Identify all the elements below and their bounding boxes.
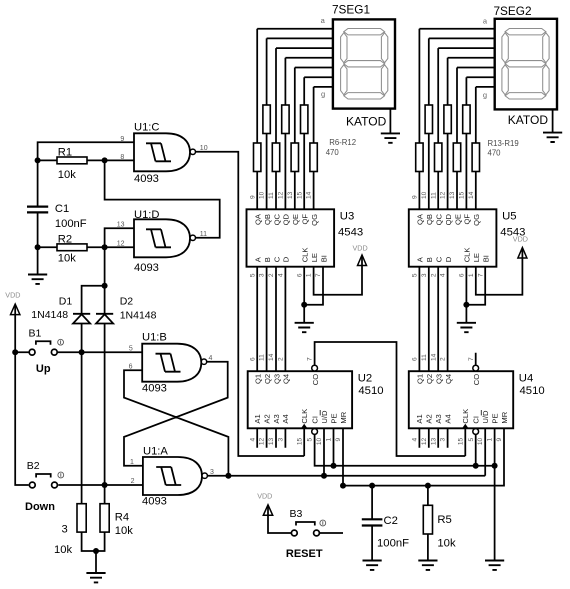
svg-text:U3: U3 <box>340 211 354 223</box>
svg-text:R5: R5 <box>437 514 451 526</box>
svg-text:CO: CO <box>472 374 481 385</box>
svg-text:QB: QB <box>425 214 434 225</box>
svg-text:9: 9 <box>120 136 124 143</box>
svg-text:PE: PE <box>490 413 499 423</box>
svg-text:4543: 4543 <box>338 227 363 239</box>
svg-text:CI: CI <box>310 416 319 424</box>
svg-text:11: 11 <box>200 231 207 238</box>
svg-text:6: 6 <box>296 273 303 277</box>
svg-text:U1:D: U1:D <box>134 209 160 221</box>
svg-text:BI: BI <box>482 255 491 262</box>
svg-text:D: D <box>444 256 453 262</box>
svg-text:100nF: 100nF <box>55 218 87 230</box>
svg-text:11: 11 <box>259 354 266 361</box>
svg-text:14: 14 <box>468 191 475 199</box>
svg-text:12: 12 <box>440 191 447 199</box>
svg-text:6: 6 <box>249 357 256 361</box>
svg-text:B: B <box>425 257 434 262</box>
svg-text:QE: QE <box>291 214 300 225</box>
svg-text:11: 11 <box>430 192 437 199</box>
svg-text:Q1: Q1 <box>254 374 263 384</box>
svg-text:LE: LE <box>472 253 481 262</box>
svg-text:Q4: Q4 <box>444 374 453 384</box>
svg-text:7: 7 <box>468 357 475 361</box>
svg-text:R2: R2 <box>58 234 72 246</box>
svg-text:R6-R12: R6-R12 <box>329 138 356 147</box>
svg-text:VDD: VDD <box>353 244 368 253</box>
svg-text:4: 4 <box>440 273 447 277</box>
svg-text:9: 9 <box>249 195 256 199</box>
svg-text:Q2: Q2 <box>263 374 272 384</box>
svg-text:7: 7 <box>477 273 484 277</box>
svg-text:CLK: CLK <box>461 409 470 424</box>
svg-text:3: 3 <box>440 437 447 441</box>
svg-text:3: 3 <box>62 524 68 536</box>
svg-text:2: 2 <box>131 478 135 485</box>
svg-text:15: 15 <box>296 191 303 199</box>
svg-text:7SEG1: 7SEG1 <box>332 3 370 17</box>
svg-text:10: 10 <box>316 437 323 445</box>
svg-text:8: 8 <box>120 154 124 161</box>
svg-text:10k: 10k <box>437 538 456 550</box>
svg-text:BI: BI <box>319 255 328 262</box>
svg-text:10k: 10k <box>115 525 133 537</box>
svg-text:CI: CI <box>472 416 481 424</box>
svg-text:A1: A1 <box>253 414 262 423</box>
svg-text:3: 3 <box>278 437 285 441</box>
svg-text:9: 9 <box>412 195 419 199</box>
svg-text:4: 4 <box>278 273 285 277</box>
svg-text:Down: Down <box>25 501 55 513</box>
svg-text:100nF: 100nF <box>377 538 409 550</box>
svg-text:Q4: Q4 <box>282 374 291 384</box>
svg-text:4: 4 <box>249 437 256 441</box>
svg-text:5: 5 <box>468 437 475 441</box>
svg-text:3: 3 <box>421 273 428 277</box>
svg-text:13: 13 <box>449 191 456 199</box>
svg-text:5: 5 <box>249 273 256 277</box>
svg-text:14: 14 <box>430 353 437 361</box>
svg-text:1: 1 <box>130 459 134 466</box>
svg-text:4510: 4510 <box>358 385 383 397</box>
svg-text:U/D: U/D <box>320 410 329 424</box>
svg-text:5: 5 <box>129 346 133 353</box>
svg-text:3: 3 <box>259 273 266 277</box>
svg-text:6: 6 <box>412 357 419 361</box>
svg-text:2: 2 <box>268 273 275 277</box>
svg-text:2: 2 <box>440 357 447 361</box>
svg-text:QF: QF <box>301 214 310 225</box>
svg-text:10: 10 <box>477 437 484 445</box>
svg-text:10k: 10k <box>54 544 72 556</box>
svg-text:CLK: CLK <box>300 409 309 424</box>
svg-text:11: 11 <box>421 354 428 361</box>
svg-text:B2: B2 <box>27 460 40 472</box>
svg-text:470: 470 <box>326 148 340 157</box>
svg-text:Q1: Q1 <box>416 374 425 384</box>
svg-text:13: 13 <box>117 222 125 229</box>
svg-text:1: 1 <box>326 437 333 441</box>
svg-text:D2: D2 <box>120 296 134 308</box>
svg-text:1: 1 <box>306 273 313 277</box>
svg-text:4: 4 <box>209 355 213 362</box>
svg-text:5: 5 <box>307 437 314 441</box>
svg-text:12: 12 <box>278 191 285 199</box>
svg-text:4510: 4510 <box>520 385 545 397</box>
svg-text:A4: A4 <box>443 414 452 423</box>
svg-text:PE: PE <box>329 413 338 423</box>
svg-text:13: 13 <box>268 437 275 445</box>
svg-text:470: 470 <box>488 148 502 157</box>
svg-text:B: B <box>263 257 272 262</box>
svg-text:6: 6 <box>129 364 133 371</box>
svg-text:U4: U4 <box>519 372 533 384</box>
svg-text:1N4148: 1N4148 <box>31 309 68 321</box>
svg-text:Q3: Q3 <box>272 374 281 384</box>
svg-text:15: 15 <box>296 437 303 445</box>
svg-text:QD: QD <box>282 213 291 225</box>
svg-text:D1: D1 <box>59 296 73 308</box>
svg-text:2: 2 <box>278 357 285 361</box>
svg-text:13: 13 <box>287 191 294 199</box>
svg-text:RESET: RESET <box>286 548 323 560</box>
svg-text:12: 12 <box>259 437 266 445</box>
svg-text:12: 12 <box>421 437 428 445</box>
svg-text:U/D: U/D <box>481 410 490 424</box>
svg-text:g: g <box>483 90 487 99</box>
svg-text:D: D <box>282 256 291 262</box>
svg-text:MR: MR <box>339 411 348 423</box>
svg-text:VDD: VDD <box>257 492 272 501</box>
svg-text:CLK: CLK <box>463 248 472 263</box>
svg-text:12: 12 <box>117 241 125 248</box>
svg-text:CO: CO <box>311 374 320 385</box>
svg-text:9: 9 <box>335 437 342 441</box>
svg-text:1N4148: 1N4148 <box>120 310 157 322</box>
svg-text:U5: U5 <box>502 211 516 223</box>
svg-text:7: 7 <box>307 357 314 361</box>
svg-text:5: 5 <box>412 273 419 277</box>
svg-text:13: 13 <box>430 437 437 445</box>
svg-text:10: 10 <box>259 191 266 199</box>
svg-text:7: 7 <box>315 273 322 277</box>
svg-text:QE: QE <box>453 214 462 225</box>
svg-text:R1: R1 <box>58 147 72 159</box>
svg-text:3: 3 <box>210 469 214 476</box>
svg-text:CLK: CLK <box>301 248 310 263</box>
svg-text:QC: QC <box>435 213 444 225</box>
svg-text:A2: A2 <box>262 414 271 423</box>
svg-text:10k: 10k <box>58 253 76 265</box>
svg-text:R13-R19: R13-R19 <box>488 139 519 148</box>
svg-text:U1:A: U1:A <box>143 446 168 458</box>
svg-text:B1: B1 <box>29 327 42 339</box>
svg-text:15: 15 <box>457 437 464 445</box>
svg-text:4093: 4093 <box>134 173 159 185</box>
svg-text:14: 14 <box>306 191 313 199</box>
svg-text:Up: Up <box>36 363 51 375</box>
svg-text:C2: C2 <box>384 515 398 527</box>
svg-text:VDD: VDD <box>5 291 20 300</box>
svg-text:U2: U2 <box>358 372 372 384</box>
svg-text:A3: A3 <box>272 414 281 423</box>
svg-text:A2: A2 <box>425 414 434 423</box>
svg-text:4: 4 <box>412 437 419 441</box>
svg-text:Q2: Q2 <box>425 374 434 384</box>
svg-text:U1:C: U1:C <box>134 122 160 134</box>
svg-text:VDD: VDD <box>513 235 528 244</box>
svg-text:C1: C1 <box>55 203 69 215</box>
svg-text:4093: 4093 <box>134 262 159 274</box>
svg-text:QG: QG <box>310 214 319 226</box>
svg-text:QC: QC <box>272 213 281 225</box>
svg-text:4093: 4093 <box>142 382 167 394</box>
svg-text:2: 2 <box>430 273 437 277</box>
svg-text:A3: A3 <box>434 414 443 423</box>
svg-text:LE: LE <box>310 253 319 262</box>
svg-text:6: 6 <box>459 273 466 277</box>
svg-text:14: 14 <box>268 353 275 361</box>
svg-text:g: g <box>321 90 325 99</box>
svg-text:QF: QF <box>463 214 472 225</box>
svg-text:7SEG2: 7SEG2 <box>494 4 532 18</box>
svg-text:A1: A1 <box>415 414 424 423</box>
svg-text:QG: QG <box>472 214 481 226</box>
svg-text:15: 15 <box>459 191 466 199</box>
svg-text:10: 10 <box>200 145 208 152</box>
svg-text:1: 1 <box>487 437 494 441</box>
svg-text:QA: QA <box>254 213 263 225</box>
svg-text:C: C <box>435 256 444 262</box>
svg-text:4093: 4093 <box>142 496 167 508</box>
svg-text:C: C <box>272 256 281 262</box>
svg-text:KATOD: KATOD <box>508 113 549 127</box>
svg-text:QD: QD <box>444 213 453 225</box>
svg-text:10: 10 <box>421 191 428 199</box>
svg-text:U1:B: U1:B <box>142 332 167 344</box>
svg-text:A4: A4 <box>281 414 290 423</box>
svg-text:MR: MR <box>500 411 509 423</box>
svg-text:KATOD: KATOD <box>346 115 387 129</box>
svg-text:10k: 10k <box>58 169 76 181</box>
svg-text:1: 1 <box>468 273 475 277</box>
svg-text:B3: B3 <box>290 508 303 520</box>
svg-text:Q3: Q3 <box>435 374 444 384</box>
svg-text:9: 9 <box>496 437 503 441</box>
svg-text:QB: QB <box>263 214 272 225</box>
svg-text:R4: R4 <box>115 512 129 524</box>
svg-text:QA: QA <box>416 213 425 225</box>
svg-text:11: 11 <box>268 192 275 199</box>
